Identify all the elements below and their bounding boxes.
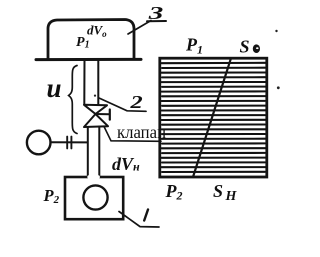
svg-text:2: 2 — [129, 92, 143, 112]
svg-text:S: S — [240, 37, 250, 57]
svg-text:u: u — [47, 73, 62, 103]
svg-text:3: 3 — [148, 3, 164, 23]
svg-text:клапан: клапан — [117, 122, 166, 142]
